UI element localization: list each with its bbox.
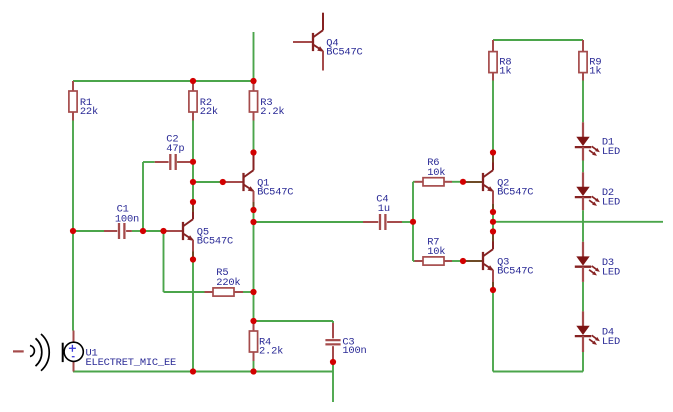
svg-text:1k: 1k [589, 66, 601, 78]
svg-text:BC547C: BC547C [326, 46, 362, 58]
svg-text:22k: 22k [200, 106, 218, 118]
svg-text:LED: LED [602, 146, 620, 158]
svg-text:220k: 220k [216, 277, 240, 289]
svg-text:LED: LED [602, 267, 620, 279]
svg-text:LED: LED [602, 336, 620, 348]
svg-text:10k: 10k [427, 246, 445, 258]
svg-text:2.2k: 2.2k [259, 346, 283, 358]
svg-text:BC547C: BC547C [197, 235, 233, 247]
svg-text:ELECTRET_MIC_EE: ELECTRET_MIC_EE [86, 357, 177, 369]
svg-text:1u: 1u [378, 203, 390, 215]
svg-text:1k: 1k [499, 66, 511, 78]
svg-text:100n: 100n [115, 213, 139, 225]
svg-text:LED: LED [602, 196, 620, 208]
svg-text:10k: 10k [427, 167, 445, 179]
svg-text:22k: 22k [80, 106, 98, 118]
svg-text:47p: 47p [166, 143, 184, 155]
svg-text:BC547C: BC547C [497, 265, 533, 277]
svg-text:100n: 100n [342, 345, 366, 357]
svg-text:BC547C: BC547C [497, 186, 533, 198]
svg-text:2.2k: 2.2k [260, 106, 284, 118]
svg-text:BC547C: BC547C [257, 186, 293, 198]
